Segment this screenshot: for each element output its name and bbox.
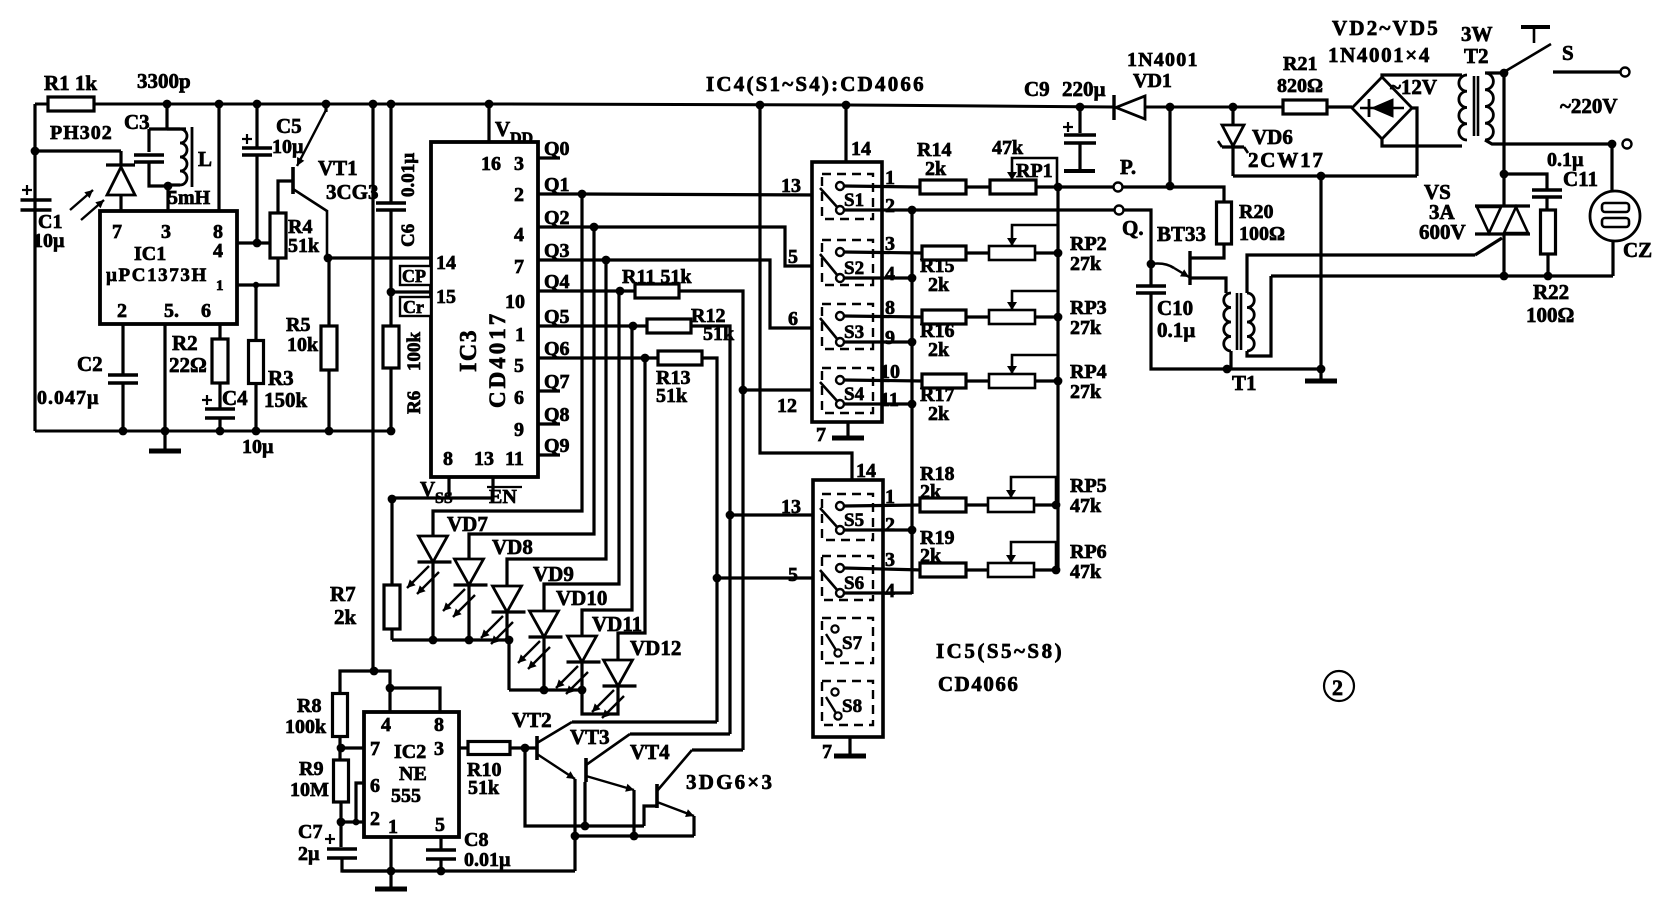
label Q. — [1122, 216, 1144, 240]
label R3 — [268, 366, 294, 390]
wire S3 pin8 — [844, 316, 922, 317]
svg-text:2: 2 — [117, 300, 127, 322]
svg-text:27k: 27k — [1070, 253, 1102, 275]
value R17 2k — [928, 403, 950, 425]
value RP6 47k — [1070, 561, 1102, 583]
svg-text:T1: T1 — [1232, 371, 1257, 395]
svg-text:0.01µ: 0.01µ — [464, 849, 511, 871]
T1 core — [1237, 293, 1241, 350]
wire R6 top — [389, 292, 392, 326]
svg-text:VD1: VD1 — [1133, 70, 1172, 92]
wire C6 to Cr — [389, 210, 392, 292]
svg-text:820Ω: 820Ω — [1277, 75, 1323, 97]
resistor R17 — [922, 374, 966, 388]
wire S2 pin3 — [844, 252, 922, 253]
svg-text:9: 9 — [885, 327, 895, 349]
svg-text:0.01µ: 0.01µ — [398, 153, 419, 197]
transistor VT1 — [293, 104, 327, 258]
label IC2 — [394, 741, 426, 763]
switch S7 box — [822, 618, 873, 663]
svg-text:C9: C9 — [1024, 77, 1050, 101]
junction C2 rail — [119, 427, 128, 436]
plus C1 — [22, 185, 32, 195]
wire S6 ctrl — [717, 576, 822, 579]
label VD11 — [592, 612, 642, 636]
label C6 — [398, 224, 419, 247]
switch S — [1504, 27, 1551, 72]
wire gnd stem — [163, 431, 166, 449]
svg-text:Cr: Cr — [403, 297, 424, 317]
label R11 51k — [622, 266, 692, 288]
resistor R20 — [1217, 202, 1232, 244]
svg-text:2k: 2k — [334, 605, 357, 629]
svg-text:R1 1k: R1 1k — [44, 71, 97, 95]
wire L bottom — [168, 183, 180, 186]
wire R8 to R9 — [338, 736, 341, 760]
ground main rail — [149, 449, 181, 454]
pin 7 IC1 — [112, 221, 122, 243]
svg-text:10µ: 10µ — [33, 230, 65, 252]
label Q3 — [544, 240, 570, 262]
label R9 — [299, 758, 323, 780]
wire S4 ctrl — [743, 388, 822, 391]
svg-text:VT3: VT3 — [570, 725, 610, 749]
pin 6 555 — [370, 775, 380, 797]
svg-text:S2: S2 — [844, 258, 864, 279]
svg-text:6: 6 — [201, 300, 211, 322]
value RP1 47k — [992, 137, 1024, 159]
value R10 51k — [468, 777, 500, 799]
wire R18 to RP5 — [966, 503, 989, 506]
pin 4 555 — [381, 714, 391, 736]
junction RP3 node — [1054, 313, 1063, 322]
pin 2 IC1 — [117, 300, 127, 322]
svg-text:47k: 47k — [1070, 495, 1102, 517]
switch S1 box — [822, 174, 873, 219]
wire ground rail — [35, 430, 392, 433]
junction C4 rail — [216, 427, 225, 436]
junction VT3 base tap — [581, 822, 590, 831]
svg-text:2k: 2k — [920, 545, 942, 567]
wire RP bus vertical — [1056, 187, 1059, 571]
wire R20 bottom — [1190, 244, 1224, 258]
label 2 — [1332, 675, 1343, 700]
pin 10 S4 — [880, 361, 900, 383]
junction P line — [1166, 182, 1175, 191]
wire S4 pin10 — [844, 380, 922, 381]
label CZ — [1623, 238, 1652, 262]
wire LED bus B — [509, 688, 582, 691]
wire R6 bottom — [389, 368, 392, 431]
svg-text:RP2: RP2 — [1070, 233, 1107, 255]
pin 7 Q3 — [514, 256, 524, 278]
wire pin3 out — [459, 746, 468, 749]
pin 7 IC5 — [822, 741, 832, 763]
svg-text:C10: C10 — [1157, 296, 1193, 320]
ground NE555 — [375, 887, 407, 892]
wire VT2 collector — [572, 720, 717, 723]
label RP4 — [1070, 361, 1107, 383]
svg-text:S8: S8 — [842, 696, 862, 717]
svg-text:8: 8 — [434, 714, 444, 736]
svg-text:IC3: IC3 — [456, 329, 482, 372]
wire supply vertical 373 — [371, 104, 374, 671]
junction S4 ctrl — [739, 386, 748, 395]
pin 1 555 — [388, 816, 398, 838]
label VSS V — [420, 477, 435, 501]
label VDD V — [495, 117, 510, 141]
wire bus VD1 to bridge section — [1146, 106, 1283, 109]
wire gnd stem right — [1319, 369, 1322, 380]
label R13 — [656, 367, 690, 389]
pin 16 — [481, 153, 501, 175]
label S5 — [844, 510, 864, 531]
resistor R9 — [334, 760, 349, 802]
svg-text:C6: C6 — [398, 224, 419, 247]
svg-text:R6: R6 — [404, 391, 425, 414]
junction T1 gnd rail — [1223, 365, 1232, 374]
wire R11 to VT4 — [741, 390, 744, 750]
svg-text:100Ω: 100Ω — [1239, 223, 1285, 245]
junction Q line — [908, 206, 917, 215]
label Q2 — [544, 207, 570, 229]
junction pin5 rail — [161, 427, 170, 436]
svg-text:7: 7 — [822, 741, 832, 763]
wire C6 column top — [389, 104, 392, 202]
label Q4 — [544, 271, 570, 293]
svg-text:14: 14 — [851, 138, 871, 160]
wire VDD — [487, 104, 490, 142]
label R6 — [404, 391, 425, 414]
Cr pin box — [400, 297, 431, 316]
svg-text:1: 1 — [216, 278, 224, 294]
svg-text:R20: R20 — [1239, 201, 1273, 223]
wire IC1 pin4 — [237, 241, 271, 244]
label S7 — [842, 633, 863, 654]
wire VD6 top — [1231, 107, 1234, 125]
svg-text:VD10: VD10 — [556, 586, 607, 610]
svg-text:VT2: VT2 — [512, 708, 552, 732]
pin 2 555 — [370, 808, 380, 830]
wire Q4 stub — [538, 289, 560, 292]
svg-text:9: 9 — [514, 419, 524, 441]
junction RP1 node — [1054, 183, 1063, 192]
value 10u — [33, 230, 65, 252]
terminal Q — [1115, 206, 1124, 215]
socket CZ — [1590, 191, 1640, 241]
svg-text:0.1µ: 0.1µ — [1157, 318, 1195, 342]
resistor R19 — [920, 563, 966, 577]
pin 1 Q5 — [515, 324, 525, 346]
wire Q5 stub — [538, 324, 560, 327]
svg-text:IC1: IC1 — [134, 243, 166, 265]
label IC1 — [134, 243, 166, 265]
wire R16 to RP3 — [966, 315, 990, 318]
svg-text:IC4(S1~S4):CD4066: IC4(S1~S4):CD4066 — [706, 72, 926, 96]
label R17 — [920, 384, 954, 406]
wire T2 top lead — [1485, 71, 1504, 74]
svg-text:6: 6 — [370, 775, 380, 797]
junction R5 rail — [325, 427, 334, 436]
junction VD10 bus — [540, 686, 549, 695]
wire to CZ top — [1610, 144, 1613, 191]
label R10 — [467, 759, 501, 781]
pin 7 IC4 — [816, 424, 826, 446]
svg-text:47k: 47k — [1070, 561, 1102, 583]
label 1N4001x4 — [1328, 43, 1431, 67]
transformer T1 secondary — [1247, 293, 1254, 351]
label Cr — [403, 297, 424, 317]
label S — [1562, 41, 1574, 65]
label VT2 — [512, 708, 552, 732]
wire C1 column — [33, 151, 36, 431]
resistor R16 — [922, 310, 966, 324]
wire pin7 — [341, 746, 364, 749]
junction R6 rail — [387, 427, 396, 436]
svg-text:2k: 2k — [928, 274, 950, 296]
junction R22 rail — [1544, 272, 1553, 281]
svg-text:C3: C3 — [124, 110, 150, 134]
wire Q6 stub — [538, 356, 560, 359]
svg-text:7: 7 — [816, 424, 826, 446]
junction C9 bus — [1076, 103, 1085, 112]
svg-text:S6: S6 — [844, 573, 864, 594]
svg-text:C5: C5 — [276, 114, 302, 138]
svg-text:13: 13 — [781, 175, 801, 197]
svg-text:S: S — [1562, 41, 1574, 65]
wire L top — [167, 127, 180, 130]
svg-text:10M: 10M — [290, 779, 329, 801]
svg-text:~220V: ~220V — [1560, 94, 1618, 118]
junction VT2 emitter bus — [571, 832, 580, 841]
resistor R2 — [212, 339, 228, 383]
svg-text:2k: 2k — [920, 481, 942, 503]
potentiometer RP6 — [988, 542, 1056, 577]
wire C9 stem — [1078, 143, 1081, 169]
wire S5 pin2 — [844, 528, 912, 531]
pin 3 Q0 — [514, 153, 524, 175]
svg-text:T2: T2 — [1464, 44, 1489, 68]
ground IC4 — [832, 436, 864, 441]
junction Q1 node — [578, 190, 587, 199]
subscript 1 — [216, 278, 224, 294]
switch S6 — [820, 564, 844, 597]
pin 6 IC1 — [201, 300, 211, 322]
svg-text:10: 10 — [505, 291, 525, 313]
wire RP5 out — [1033, 503, 1056, 506]
pin 9 S3 — [885, 327, 895, 349]
pin 2 Q1 — [514, 184, 524, 206]
pin 4 S6 — [885, 580, 895, 602]
label R2 — [172, 331, 198, 355]
wire Q6 drop VD12 — [618, 358, 645, 660]
label R14 — [917, 139, 951, 161]
wire R21 to bridge — [1327, 105, 1352, 108]
svg-text:R5: R5 — [286, 314, 310, 336]
wire ctrl vertical — [910, 210, 913, 594]
label RP6 — [1070, 541, 1107, 563]
pin 3 555 — [434, 738, 444, 760]
diode VD1 — [1114, 95, 1145, 120]
label C3 — [124, 110, 150, 134]
wire pin4 drop — [388, 688, 391, 712]
wire VT3 base — [583, 782, 586, 826]
svg-text:27k: 27k — [1070, 381, 1102, 403]
wire S3 pin9 — [844, 340, 912, 343]
svg-text:7: 7 — [112, 221, 122, 243]
wire R4 bottom — [237, 258, 278, 285]
label Q0 — [544, 138, 570, 160]
junction VSS — [388, 495, 397, 504]
pin 14 IC5 — [856, 460, 876, 482]
wire S1 pin1 — [844, 186, 920, 187]
value R8 100k — [285, 716, 327, 738]
label uPC1373H — [106, 265, 208, 286]
junction minus rail gnd — [1317, 172, 1326, 181]
svg-text:10µ: 10µ — [242, 436, 274, 458]
svg-text:~12V: ~12V — [1390, 75, 1437, 99]
wire S2 pin4 — [844, 276, 912, 279]
switch S3 — [820, 312, 844, 346]
wire bridge ac top — [1382, 75, 1462, 77]
wire LED bus A — [392, 638, 509, 641]
junction Q2 node — [590, 223, 599, 232]
label R22 — [1533, 280, 1569, 304]
wire C10 bottom — [1151, 293, 1227, 369]
value R22 100ohm — [1526, 303, 1574, 327]
value R20 100ohm — [1239, 223, 1285, 245]
label R15 — [920, 255, 954, 277]
resistor R13 — [658, 351, 702, 365]
wire Q to BT33 — [1124, 210, 1151, 264]
LED VD12 — [592, 660, 637, 718]
svg-text:3CG3: 3CG3 — [326, 180, 379, 204]
junction C6 bus — [387, 100, 396, 109]
svg-text:R2: R2 — [172, 331, 198, 355]
label 3CG3 — [326, 180, 379, 204]
wire S to terminal — [1553, 70, 1620, 73]
svg-text:51k: 51k — [288, 235, 320, 257]
wire VD1 down — [1168, 107, 1171, 186]
svg-text:2: 2 — [514, 184, 524, 206]
IC U2 NE555 box — [364, 712, 459, 837]
label R21 — [1283, 53, 1317, 75]
svg-text:S7: S7 — [842, 633, 863, 654]
junction VD11 bus — [578, 686, 587, 695]
svg-text:11: 11 — [505, 448, 524, 470]
capacitor C10 — [1136, 286, 1166, 293]
transformer T1 primary — [1224, 293, 1231, 351]
label VT4 — [630, 740, 670, 764]
wire C4 bottom — [218, 418, 221, 431]
switch S8 box — [822, 681, 873, 725]
wire T2 bottom lead — [1485, 140, 1612, 144]
junction tank bottom — [164, 182, 173, 191]
wire Q4 drop VD10 — [544, 291, 619, 611]
ground right — [1305, 379, 1337, 384]
label S2 — [844, 258, 864, 279]
junction C11 tap — [1500, 170, 1509, 179]
junction 555 supply — [370, 667, 379, 676]
svg-text:13: 13 — [474, 448, 494, 470]
LED VD7 — [407, 536, 452, 594]
label VD10 — [556, 586, 607, 610]
value C4 10u — [242, 436, 274, 458]
LED VD9 — [481, 586, 526, 644]
wire triac bottom — [1502, 234, 1505, 276]
value RP2 27k — [1070, 253, 1102, 275]
svg-text:3DG6×3: 3DG6×3 — [686, 770, 774, 794]
label 1N4001 — [1127, 49, 1199, 71]
label VDD sub — [510, 130, 533, 147]
wire R12 to VT3 — [728, 515, 731, 734]
label VSS sub — [435, 490, 453, 507]
junction pin8 bus — [215, 100, 224, 109]
wire Q1 stub — [538, 192, 560, 195]
svg-text:7: 7 — [514, 256, 524, 278]
label R18 — [920, 463, 954, 485]
label RP5 — [1070, 475, 1107, 497]
transistor VT4 — [657, 750, 694, 817]
wire Q5 drop VD11 — [582, 326, 632, 636]
wire Q7 stub — [538, 389, 560, 392]
junction bus A corner — [505, 636, 514, 645]
wire RP1 out — [1036, 185, 1119, 188]
wire C11 to R22 — [1545, 197, 1548, 210]
label C4 — [222, 386, 248, 410]
junction VT1 collector node — [324, 254, 333, 263]
value C8 0.01u — [464, 849, 511, 871]
value RP5 47k — [1070, 495, 1102, 517]
EN overline — [487, 486, 522, 488]
wire IC1 pin5 down — [163, 324, 166, 431]
svg-text:VD12: VD12 — [630, 636, 681, 660]
pin 8 IC1 — [213, 221, 223, 243]
svg-text:5: 5 — [788, 564, 798, 586]
label S4 — [844, 384, 865, 405]
wire VT4 base — [644, 806, 657, 826]
svg-text:3W: 3W — [1461, 22, 1493, 46]
pin 7 555 — [370, 738, 380, 760]
label 555 — [391, 785, 421, 807]
wire C11 branch — [1504, 174, 1547, 189]
pin 3 S2 — [885, 233, 895, 255]
wire VT2 emitter drop — [573, 779, 576, 871]
pin 1 S1 — [885, 167, 895, 189]
wire R15 to RP2 — [966, 251, 990, 254]
value R16 2k — [928, 339, 950, 361]
svg-text:2k: 2k — [928, 403, 950, 425]
label S6 — [844, 573, 864, 594]
label ~12V — [1390, 75, 1437, 99]
label L — [198, 147, 212, 171]
label Q7 — [544, 371, 570, 393]
label VD8 — [492, 535, 533, 559]
resistor R6 — [383, 326, 399, 368]
junction Q3 node — [602, 256, 611, 265]
svg-text:51k: 51k — [468, 777, 500, 799]
wire pin1 down — [389, 837, 392, 888]
wire R3 top — [254, 285, 257, 341]
wire C9 lead — [1078, 107, 1081, 133]
label R12 — [691, 305, 725, 327]
wire S5 pin1 — [844, 505, 920, 506]
svg-text:5.: 5. — [164, 300, 179, 322]
value R19 2k — [920, 545, 942, 567]
plus C7 — [325, 834, 335, 844]
svg-text:3: 3 — [514, 153, 524, 175]
pin 8 S3 — [885, 297, 895, 319]
